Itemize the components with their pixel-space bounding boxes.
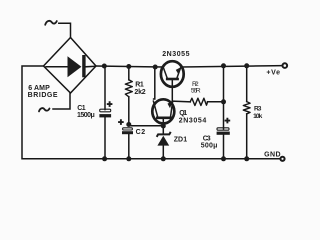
svg-text:C2: C2 <box>136 129 146 136</box>
svg-text:BRIDGE: BRIDGE <box>28 92 58 99</box>
svg-text:C3: C3 <box>203 135 211 142</box>
svg-text:1500μ: 1500μ <box>77 112 95 119</box>
svg-text:+Ve: +Ve <box>266 70 280 77</box>
svg-text:2N3055: 2N3055 <box>162 51 189 58</box>
svg-text:ZD1: ZD1 <box>174 136 187 143</box>
svg-text:2N3054: 2N3054 <box>179 118 207 125</box>
svg-text:56R: 56R <box>191 88 201 95</box>
svg-text:10k: 10k <box>253 113 263 120</box>
svg-text:R1: R1 <box>135 81 144 88</box>
svg-text:2k2: 2k2 <box>134 89 145 96</box>
svg-text:R3: R3 <box>254 106 262 113</box>
svg-text:C1: C1 <box>77 105 85 112</box>
svg-text:GND: GND <box>264 151 281 158</box>
svg-text:Q1: Q1 <box>179 110 187 117</box>
svg-text:500μ: 500μ <box>201 143 218 150</box>
